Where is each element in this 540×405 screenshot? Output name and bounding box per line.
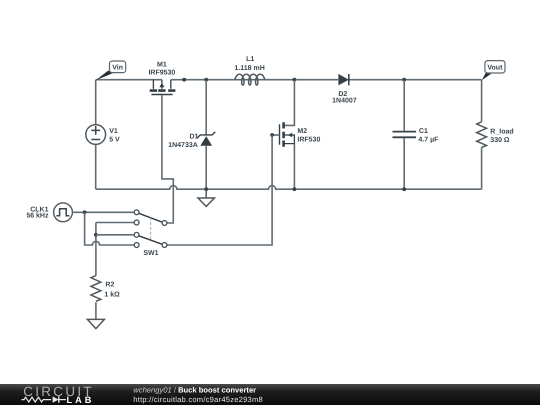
wire R2 column [96,223,134,276]
svg-text:1.118 mH: 1.118 mH [234,65,264,72]
svg-text:SW1: SW1 [143,250,158,257]
flag Vin [96,61,126,80]
wire CLK1 to row4 [85,212,135,245]
capacitor C1 [393,132,417,138]
wire M1 gate to switch pole1 [162,95,173,224]
node junction M2 gate [270,133,274,137]
label M2 value [297,128,320,143]
svg-text:L1: L1 [246,56,254,63]
node junction D1 bottom [204,187,208,191]
wire top rail [96,79,482,81]
diode D2 [338,74,348,86]
node junction M2 source [293,187,297,191]
label C1 value [418,128,439,143]
label D1 value [168,134,198,149]
transistor M2 [272,80,294,190]
node junction C1 bottom [402,187,406,191]
svg-text:330 Ω: 330 Ω [490,137,510,144]
wire CLK1 output [72,211,134,213]
node junction CLK1 [83,210,87,214]
clock source CLK1 [54,203,73,222]
node junction row3 [94,233,98,237]
svg-text:Vin: Vin [112,63,123,71]
switch SW1 [134,210,167,248]
wire bottom rail [96,186,482,190]
svg-text:http://circuitlab.com/c9ar45ze: http://circuitlab.com/c9ar45ze293m8 [133,395,263,404]
wire V1 leads left branch [95,80,97,190]
label D2 value [332,91,357,104]
footer bar [0,384,540,405]
label R2 value [104,282,120,299]
svg-text:Vout: Vout [487,65,503,72]
logo CIRCUIT LAB [22,384,95,405]
label V1 value [109,128,120,143]
resistor R2 [91,276,101,302]
svg-text:D1: D1 [189,134,198,141]
transistor M1 [150,80,176,95]
wire row3 [96,234,134,236]
svg-text:V1: V1 [109,128,118,135]
wire R2 lead [95,302,97,319]
label SW1 [143,250,158,257]
svg-text:5 V: 5 V [109,136,120,143]
diode D1 zener [197,132,215,146]
svg-text:56 kHz: 56 kHz [26,212,49,220]
label CLK1 value [26,206,49,219]
svg-text:R_load: R_load [490,127,513,135]
svg-text:M2: M2 [297,128,307,135]
node junction M2 drain [293,78,297,82]
voltage source V1 [86,125,106,145]
svg-text:1N4733A: 1N4733A [168,142,198,149]
svg-text:1N4007: 1N4007 [332,97,357,104]
inductor L1 [235,74,265,85]
ground symbol center [198,189,214,206]
ground symbol R2 [87,319,104,328]
wire M2 gate to switch pole2 [167,135,272,245]
svg-text:LAB: LAB [67,395,95,405]
flag Vout [482,61,505,81]
node junction M1 drain [182,78,186,82]
svg-text:C1: C1 [419,128,428,135]
label R_load value [490,127,513,144]
label M1 value [148,61,175,76]
svg-text:IRF9530: IRF9530 [148,69,175,76]
footer title text [133,386,263,404]
svg-text:IRF530: IRF530 [297,137,320,144]
resistor R_load [477,122,487,148]
node junction C1 top [402,78,406,82]
node junction D1 top [204,78,208,82]
svg-text:4.7 µF: 4.7 µF [418,137,439,144]
svg-text:1 kΩ: 1 kΩ [104,291,120,299]
label L1 value [234,56,264,72]
wire D1 branch [205,80,207,190]
wire C1 branch [403,80,405,190]
wire R_load branch [481,80,483,190]
svg-text:wchengy01 / Buck boost convert: wchengy01 / Buck boost converter [133,386,256,395]
svg-text:M1: M1 [157,61,167,68]
svg-text:R2: R2 [105,282,114,289]
